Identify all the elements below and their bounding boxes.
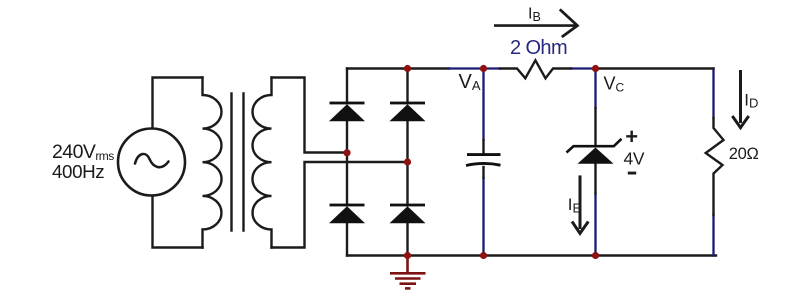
svg-text:2 Ohm: 2 Ohm [510,37,567,59]
svg-text:20Ω: 20Ω [729,145,759,163]
svg-text:4V: 4V [624,149,645,169]
svg-text:+: + [625,124,638,149]
svg-text:400Hz: 400Hz [52,161,104,182]
